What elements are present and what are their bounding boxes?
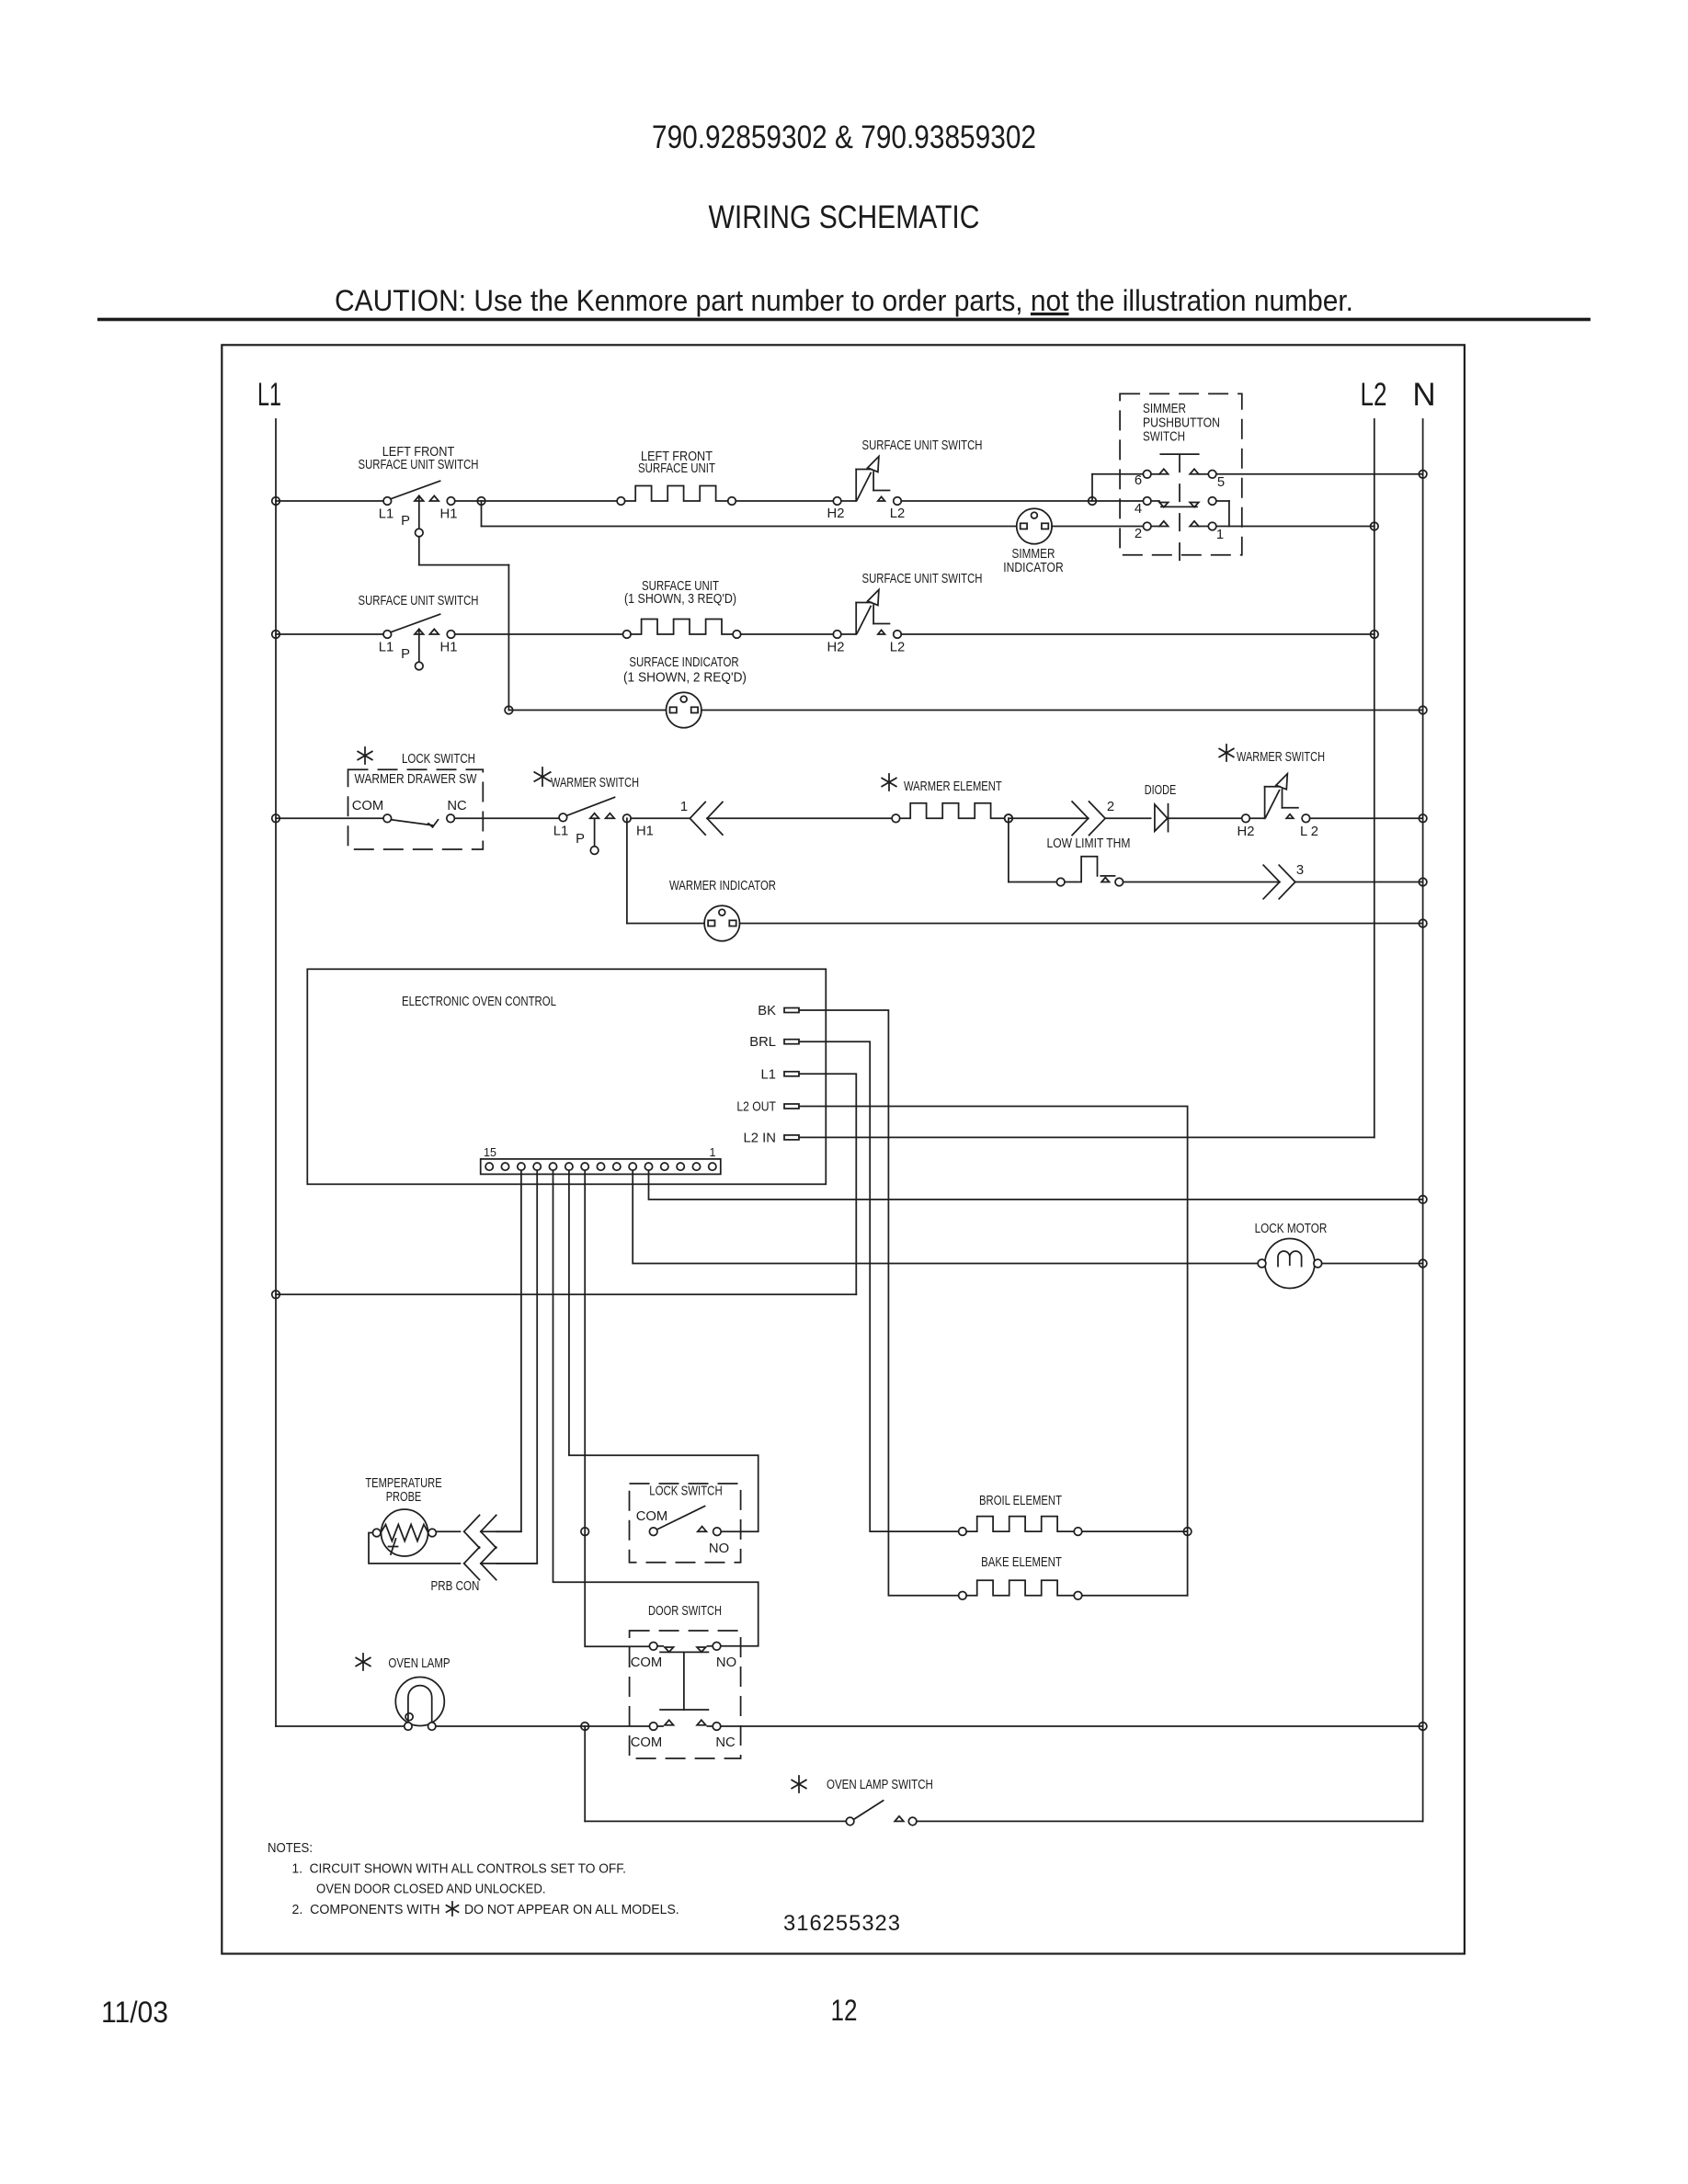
svg-text:3: 3 (1296, 863, 1304, 878)
svg-text:1: 1 (710, 1146, 716, 1159)
wire L1 bus vertical (275, 419, 277, 1726)
svg-text:PUSHBUTTON: PUSHBUTTON (1143, 416, 1220, 431)
wire pin10 to lock switch NO (569, 1170, 758, 1531)
simmer contact 5 (1190, 469, 1199, 474)
wire L1 bus to switch (276, 500, 383, 502)
wire drop pin4b to row1-2 (1228, 501, 1230, 527)
junction L1 row3 (272, 814, 280, 823)
wire NC to warmer switch (454, 817, 559, 819)
junction surface indicator corner (505, 706, 513, 714)
electronic oven control box (307, 969, 826, 1184)
warmer element label (888, 774, 890, 791)
wire L1 corner to oven lamp (276, 1725, 405, 1727)
svg-text:L2 IN: L2 IN (744, 1131, 777, 1145)
svg-text:COM: COM (352, 799, 384, 813)
wire L2 terminal to L2 bus row2 (901, 633, 1374, 635)
svg-text:COM: COM (636, 1509, 668, 1524)
wire door NC to N (721, 1725, 1423, 1727)
svg-text:L1: L1 (379, 641, 393, 655)
wire EOC L2 IN (799, 1136, 1374, 1138)
svg-text:SURFACE UNIT: SURFACE UNIT (638, 461, 715, 476)
svg-text:OVEN DOOR CLOSED AND UNLOCKED.: OVEN DOOR CLOSED AND UNLOCKED. (316, 1882, 546, 1897)
wire oven lamp to door COM (436, 1725, 650, 1727)
oven lamp label (362, 1654, 364, 1670)
svg-text:H1: H1 (636, 825, 654, 839)
svg-text:NC: NC (447, 799, 467, 813)
surface unit switch row2 (383, 631, 392, 639)
svg-text:4: 4 (1135, 502, 1142, 517)
svg-text:SURFACE UNIT SWITCH: SURFACE UNIT SWITCH (862, 572, 983, 586)
svg-text:WIRING SCHEMATIC: WIRING SCHEMATIC (709, 199, 980, 235)
svg-text:L2 OUT: L2 OUT (736, 1100, 776, 1115)
junction L1 row1 (272, 497, 280, 506)
svg-text:SURFACE INDICATOR: SURFACE INDICATOR (629, 655, 738, 670)
wire L2 bus vertical (1374, 419, 1375, 1137)
svg-text:BROIL ELEMENT: BROIL ELEMENT (979, 1494, 1062, 1508)
svg-text:N: N (1412, 377, 1435, 413)
svg-text:WARMER SWITCH: WARMER SWITCH (551, 776, 639, 791)
wire H1 to element (455, 500, 617, 502)
simmer contact 6 (1143, 471, 1151, 479)
wire oven lamp switch to N (917, 1820, 1423, 1822)
wire probe left loop (369, 1533, 460, 1564)
broil element (959, 1528, 967, 1536)
warmer switch 2 label (1226, 745, 1227, 761)
svg-text:WARMER SWITCH: WARMER SWITCH (1237, 750, 1325, 765)
bake element (959, 1592, 967, 1600)
svg-text:L1: L1 (553, 825, 568, 839)
wire warmer element to plug 2 (1009, 817, 1089, 819)
simmer moving bar row4 (1161, 506, 1197, 507)
svg-text:L1: L1 (379, 507, 393, 522)
warmer drawer switch dashed box (348, 769, 484, 849)
diode (1155, 804, 1168, 831)
warmer element (892, 814, 900, 823)
wire warmer switch2 to N (1310, 817, 1423, 819)
svg-text:L2: L2 (1361, 377, 1387, 413)
wire plug1 to warmer element (707, 817, 892, 819)
wire EOC L2 OUT (799, 1107, 1188, 1596)
junction broil row at L2OUT wire (1183, 1528, 1192, 1536)
oven lamp switch label (798, 1776, 800, 1792)
wire pin5 to N (1216, 473, 1423, 475)
wire EOC BK (799, 1010, 959, 1596)
wire plug3 to N (1295, 882, 1423, 883)
oven lamp (395, 1678, 444, 1726)
wire warmer H1 drop (626, 818, 628, 923)
wire junction drop row1 to simmer indicator row (481, 501, 483, 527)
wire bake element to L2OUT wire (1082, 1595, 1188, 1597)
simmer contact 1 (1190, 521, 1199, 527)
surface unit element row2 (623, 631, 632, 639)
wire simmer indicator row (482, 526, 1017, 528)
svg-text:H2: H2 (827, 506, 845, 521)
temperature probe (382, 1509, 428, 1556)
junction warmer row at N (1419, 814, 1427, 823)
wire probe plug to pin13 wire (481, 1530, 521, 1532)
wire L1 bus to EOC L1 row (276, 1293, 856, 1295)
wire low limit to plug 3 (1123, 882, 1280, 883)
oven lamp switch (846, 1817, 854, 1826)
warmer switch (559, 813, 567, 822)
junction row1 riser to pin6 row (1089, 497, 1097, 506)
svg-text:SURFACE UNIT SWITCH: SURFACE UNIT SWITCH (359, 458, 479, 472)
svg-text:15: 15 (484, 1146, 496, 1159)
svg-text:PRB CON: PRB CON (431, 1579, 480, 1594)
warmer indicator (704, 905, 739, 940)
wire indicator to pin2 (1052, 526, 1143, 528)
wire pin6 row (1092, 473, 1143, 475)
svg-text:LOW LIMIT THM: LOW LIMIT THM (1047, 836, 1131, 851)
svg-text:BRL: BRL (749, 1035, 776, 1050)
svg-text:11/03: 11/03 (101, 1996, 168, 2029)
simmer switch actuator stem (1179, 454, 1180, 572)
simmer pushbutton switch dashed box (1120, 393, 1242, 554)
svg-text:2: 2 (1135, 527, 1142, 541)
junction row2 at L2 (1371, 631, 1379, 639)
wire EOC BRL (799, 1041, 959, 1531)
svg-text:L1: L1 (761, 1067, 776, 1082)
lock switch (649, 1528, 657, 1536)
junction L1 row2 (272, 631, 280, 639)
left front surface unit element (617, 497, 625, 506)
svg-text:(1 SHOWN, 3 REQ'D): (1 SHOWN, 3 REQ'D) (624, 592, 736, 607)
junction warmer indicator row at N (1419, 919, 1427, 927)
wire H1 to plug 1 (631, 817, 690, 819)
svg-text:WARMER DRAWER SW: WARMER DRAWER SW (355, 772, 477, 787)
svg-text:SWITCH: SWITCH (1143, 430, 1185, 445)
svg-text:2. COMPONENTS WITH: 2. COMPONENTS WITH (292, 1902, 440, 1917)
junction pin9 wire at lock switch row (581, 1528, 589, 1536)
svg-text:P: P (401, 514, 410, 529)
svg-text:H1: H1 (440, 507, 458, 522)
svg-text:H2: H2 (827, 641, 845, 655)
simmer contact 2 (1143, 522, 1151, 530)
svg-text:BK: BK (758, 1004, 776, 1018)
connector plug 1 (690, 802, 705, 819)
horizontal rule under caution (97, 318, 1591, 322)
wire probe right to plug (436, 1530, 460, 1532)
warmer drawer switch (383, 814, 392, 823)
svg-text:12: 12 (831, 1994, 858, 2027)
left front surface unit switch (383, 497, 392, 506)
svg-text:(1 SHOWN, 2 REQ'D): (1 SHOWN, 2 REQ'D) (623, 671, 747, 686)
svg-text:NO: NO (709, 1541, 729, 1556)
wire lamp row drop to lamp switch (584, 1726, 586, 1821)
EOC connector holes (485, 1163, 493, 1170)
junction lock motor row at N (1419, 1259, 1427, 1268)
wire probe plug2 to pin12 wire (481, 1563, 537, 1564)
wire diode to H2 (1169, 817, 1242, 819)
svg-text:P: P (401, 647, 410, 662)
junction with drop to simmer row (477, 497, 485, 506)
wire lock motor to N (1322, 1263, 1423, 1265)
wire riser junction to pin6 row (1091, 474, 1093, 501)
svg-text:TEMPERATURE: TEMPERATURE (365, 1476, 441, 1491)
wire broil element to L2OUT wire (1082, 1530, 1188, 1532)
wire warmer element drop (1008, 818, 1009, 882)
schematic border frame (222, 345, 1465, 1953)
svg-text:LOCK SWITCH: LOCK SWITCH (649, 1484, 722, 1499)
door switch dashed box (630, 1631, 741, 1758)
wire EOC L1 (799, 1074, 856, 1294)
wire pin13 to temperature probe (496, 1170, 521, 1531)
probe plug chevrons row1 (464, 1515, 480, 1531)
svg-text:INDICATOR: INDICATOR (1003, 561, 1063, 575)
wire pin4b to drop (1216, 500, 1229, 502)
svg-text:790.92859302 & 790.93859302: 790.92859302 & 790.93859302 (652, 119, 1036, 155)
svg-text:6: 6 (1135, 473, 1142, 488)
svg-text:DIODE: DIODE (1145, 783, 1177, 798)
svg-text:DO NOT APPEAR ON ALL MODELS.: DO NOT APPEAR ON ALL MODELS. (464, 1902, 679, 1917)
simmer contact 4 (1143, 497, 1151, 506)
svg-text:2: 2 (1107, 800, 1114, 814)
svg-text:LOCK MOTOR: LOCK MOTOR (1255, 1222, 1328, 1236)
svg-text:L 2: L 2 (1300, 825, 1318, 839)
wire L2 terminal to simmer pin4 (901, 500, 1143, 502)
svg-text:PROBE: PROBE (386, 1490, 422, 1505)
svg-text:WARMER INDICATOR: WARMER INDICATOR (669, 879, 776, 893)
junction L1 EOC row (272, 1291, 280, 1299)
junction pin5 wire at N (1419, 1196, 1427, 1204)
door switch actuator (660, 1651, 708, 1653)
svg-text:COM: COM (631, 1735, 663, 1750)
svg-text:OVEN LAMP SWITCH: OVEN LAMP SWITCH (827, 1778, 933, 1792)
lock switch note label (364, 747, 366, 764)
junction low limit row at N (1419, 878, 1427, 886)
svg-text:NO: NO (716, 1655, 736, 1670)
svg-text:L2: L2 (890, 506, 905, 521)
svg-text:SIMMER: SIMMER (1012, 547, 1055, 562)
svg-text:NOTES:: NOTES: (268, 1840, 313, 1856)
svg-text:H2: H2 (1237, 825, 1255, 839)
simmer contact 4b (1190, 503, 1199, 507)
wire plug2 to diode (1105, 817, 1151, 819)
svg-text:COM: COM (631, 1655, 663, 1670)
wire surface indicator to N (701, 710, 1423, 711)
wire element to H2 (736, 500, 833, 502)
svg-text:ELECTRONIC OVEN CONTROL: ELECTRONIC OVEN CONTROL (402, 995, 556, 1009)
svg-text:H1: H1 (440, 641, 458, 655)
wire to surface indicator (508, 710, 666, 711)
warmer switch label (542, 768, 543, 786)
wire pin6 to lock motor (633, 1170, 1258, 1263)
svg-text:P: P (576, 832, 585, 847)
svg-text:WARMER ELEMENT: WARMER ELEMENT (904, 779, 1002, 794)
junction surface indicator row at N (1419, 706, 1427, 714)
surface unit switch row2 right (833, 631, 841, 639)
door switch upper contacts (649, 1643, 657, 1651)
wire pin11 to door switch NO (553, 1170, 758, 1646)
door switch lower contacts (649, 1723, 657, 1731)
svg-text:DOOR SWITCH: DOOR SWITCH (648, 1604, 722, 1619)
lock motor (1265, 1239, 1315, 1289)
warmer switch 2 (1242, 814, 1250, 823)
wire warmer indicator to N (740, 923, 1423, 925)
svg-text:L2: L2 (890, 641, 905, 655)
svg-text:5: 5 (1217, 475, 1225, 490)
wire H1 to element row2 (455, 633, 623, 635)
svg-text:LOCK SWITCH: LOCK SWITCH (402, 752, 475, 767)
connector plug 2 (1072, 802, 1089, 818)
simmer indicator (1017, 508, 1052, 543)
wire pin9 to lock-door COM (585, 1170, 649, 1646)
junction pin1 row at L2 (1371, 522, 1379, 530)
wire L1 bus to warmer drawer COM (276, 817, 383, 819)
svg-text:1: 1 (1216, 528, 1224, 542)
junction pin5 row at N (1419, 471, 1427, 479)
surface indicator (667, 692, 701, 727)
svg-text:SIMMER: SIMMER (1143, 402, 1186, 416)
wire element to H2 row2 (741, 633, 834, 635)
junction oven lamp row lamp-switch drop (581, 1723, 589, 1731)
svg-text:316255323: 316255323 (783, 1911, 901, 1936)
wire pin5 to N (649, 1170, 1423, 1200)
svg-text:SURFACE UNIT SWITCH: SURFACE UNIT SWITCH (862, 438, 983, 453)
svg-text:1: 1 (680, 800, 688, 814)
svg-text:L1: L1 (257, 377, 281, 413)
wire pin1 to L2 (1216, 526, 1374, 528)
lock switch dashed box (630, 1484, 741, 1563)
simmer switch actuator bar (1160, 453, 1198, 455)
svg-text:1. CIRCUIT SHOWN WITH ALL CON: 1. CIRCUIT SHOWN WITH ALL CONTROLS SET T… (292, 1861, 627, 1877)
wire N bus vertical (1422, 419, 1424, 1821)
surface unit switch row1 right (833, 497, 841, 506)
EOC connector strip (481, 1159, 721, 1175)
probe plug chevrons row2 (464, 1547, 480, 1564)
svg-text:BAKE ELEMENT: BAKE ELEMENT (981, 1555, 1062, 1570)
wire pin12 to probe return (496, 1170, 537, 1564)
svg-text:NC: NC (715, 1735, 736, 1750)
svg-text:SURFACE UNIT SWITCH: SURFACE UNIT SWITCH (359, 594, 479, 609)
svg-text:CAUTION: Use the Kenmore part: CAUTION: Use the Kenmore part number to … (335, 284, 1353, 317)
wire P drop row1 (418, 537, 420, 565)
low limit thermostat (1056, 878, 1065, 886)
svg-text:OVEN LAMP: OVEN LAMP (388, 1656, 450, 1671)
junction oven lamp row at N (1419, 1723, 1427, 1731)
connector plug 3 (1263, 865, 1280, 882)
junction warmer element drop (1005, 814, 1013, 823)
wire L1 bus to switch row2 (276, 633, 383, 635)
